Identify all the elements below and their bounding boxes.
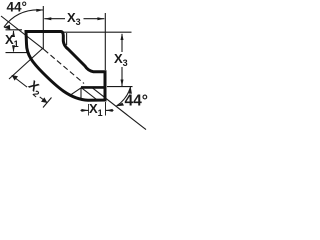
horizontal extension line y=86.6 right	[107, 86, 133, 88]
seam diagonal at lower elbow	[82, 88, 99, 101]
junction mirror line	[70, 88, 82, 96]
X3 top right arrow (points right)	[97, 17, 104, 20]
44 bottom arc lower arrow (points down-left)	[117, 103, 125, 107]
junction vertical tick	[80, 88, 82, 100]
X1 left top arrow (points up)	[12, 30, 15, 37]
X1 bottom right extension tick	[104, 102, 106, 116]
label X3 (right vertical dimension)	[114, 52, 131, 67]
44 deg arc top-left	[4, 10, 43, 27]
X3 right top arrow (points up)	[121, 33, 124, 40]
X1 left bottom arrow (points down)	[12, 45, 15, 52]
vertical extension line upper (x=43)	[42, 6, 44, 50]
svg-text:44°: 44°	[7, 0, 27, 15]
seam line	[81, 86, 105, 89]
vertical extension line at x=66	[66, 33, 68, 45]
label X3 (top horizontal dimension)	[67, 11, 84, 25]
44 top arc right arrow (points right)	[36, 9, 43, 12]
X3 top left arrow (points left)	[44, 17, 51, 20]
X2 lower arrow (points down-right)	[41, 97, 48, 103]
X3 top dimension line right part	[83, 18, 104, 20]
svg-text:44°: 44°	[125, 93, 148, 110]
X3 right dimension line	[121, 34, 123, 86]
vertical extension line x=105 upper	[104, 13, 106, 70]
X2 dimension line	[12, 76, 47, 103]
X1 bottom dimension line right stub	[106, 109, 114, 111]
diagonal miter line top-left (solid)	[1, 16, 44, 50]
label X1 (left vertical dimension)	[5, 33, 21, 48]
X3 right bottom arrow (points down)	[121, 80, 124, 87]
duct outline (thick)	[26, 32, 105, 101]
X1 bottom left extension tick	[88, 104, 90, 116]
44 top arc left arrow (points down-left)	[4, 25, 11, 30]
X1 left dimension line	[13, 31, 15, 52]
label X2 (diagonal dimension, rotated)	[24, 77, 47, 100]
X1 left bottom extension line	[6, 52, 29, 54]
X2 upper extension line	[9, 49, 43, 80]
44 bottom arc top arrow (points up)	[129, 87, 132, 94]
diagonal miter line bottom-right (solid)	[92, 88, 146, 130]
arrowheads	[4, 9, 132, 112]
label X1 (bottom horizontal dimension)	[89, 102, 105, 116]
X3 top dimension line left part	[44, 18, 65, 20]
X1 bottom dimension line left stub	[81, 109, 89, 111]
horizontal extension line y=32 top right	[63, 31, 132, 33]
X1 bottom left arrow (points right)	[81, 109, 88, 112]
X2 lower extension tick	[43, 98, 52, 108]
44 deg arc bottom-right	[117, 87, 131, 106]
centerline dash-dot through duct	[44, 50, 84, 84]
X2 upper arrow (points up-left)	[12, 75, 19, 81]
X1 left top extension line	[6, 29, 23, 31]
X1 bottom right arrow (points left)	[106, 109, 113, 112]
